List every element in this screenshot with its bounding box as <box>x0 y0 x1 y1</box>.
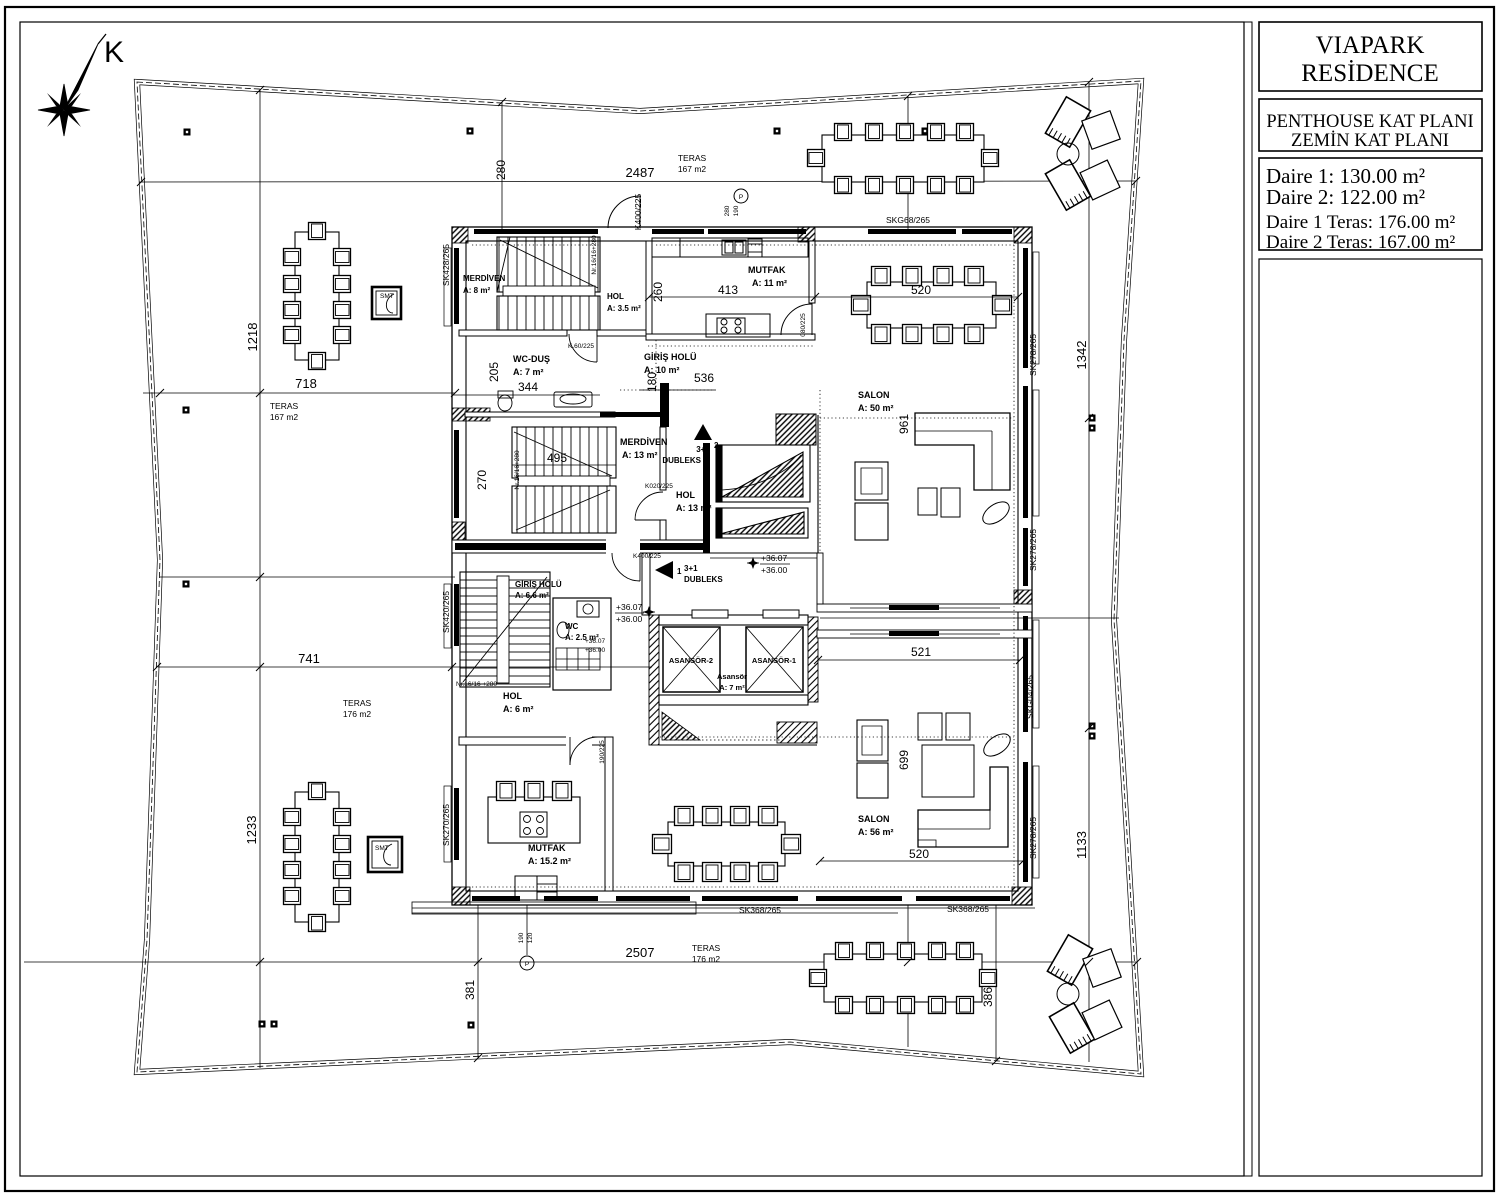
svg-text:Asansör: Asansör <box>717 672 747 681</box>
wc2 cabinet grid <box>556 648 600 670</box>
window sill lines below bottom wall <box>412 907 1035 909</box>
svg-text:SMT: SMT <box>375 845 389 852</box>
svg-text:K: K <box>104 36 124 69</box>
svg-text:Nr.16/16+280: Nr.16/16+280 <box>514 450 521 490</box>
svg-text:TERAS: TERAS <box>692 943 721 953</box>
svg-text:SMT: SMT <box>380 293 394 300</box>
apartment1 dining table <box>653 807 801 882</box>
svg-text:3+1: 3+1 <box>684 564 698 573</box>
svg-text:MUTFAK: MUTFAK <box>748 265 786 275</box>
interior dimension lines <box>452 297 1023 861</box>
svg-text:RESİDENCE: RESİDENCE <box>1301 60 1439 87</box>
upper salon L sofa <box>915 413 1010 490</box>
svg-text:176 m2: 176 m2 <box>692 954 721 964</box>
grid line vertical x908 <box>907 96 909 232</box>
WC1 toilet <box>498 391 513 411</box>
svg-text:1233: 1233 <box>244 816 259 845</box>
wall y540 black core <box>455 543 705 550</box>
svg-text:A: 6 m²: A: 6 m² <box>503 704 534 714</box>
svg-text:1: 1 <box>677 567 682 576</box>
svg-text:SK270/265: SK270/265 <box>441 804 451 846</box>
stairs top-left <box>497 237 600 330</box>
window sills outside left wall <box>444 248 451 862</box>
title block box areas <box>1259 158 1482 253</box>
wall x646 elevator approach <box>642 553 650 615</box>
svg-text:+36.07: +36.07 <box>585 638 605 645</box>
upper salon coffee tables <box>918 488 937 515</box>
svg-text:GİRİŞ HOLÜ: GİRİŞ HOLÜ <box>644 352 697 362</box>
duplex void room upper <box>716 445 810 502</box>
sliding door wall between salons <box>817 604 1032 638</box>
WC2 room walls <box>553 598 611 690</box>
svg-text:520: 520 <box>911 283 931 297</box>
svg-text:SK368/265: SK368/265 <box>739 905 781 915</box>
svg-text:ZEMİN KAT PLANI: ZEMİN KAT PLANI <box>1291 130 1449 151</box>
WC1 sink <box>554 392 592 407</box>
svg-text:SK278/265: SK278/265 <box>1028 817 1038 859</box>
svg-text:190: 190 <box>518 932 525 943</box>
bbq table bottom-left <box>368 837 402 872</box>
svg-text:A: 15.2 m²: A: 15.2 m² <box>528 856 571 866</box>
svg-text:SALON: SALON <box>858 814 890 824</box>
svg-text:DUBLEKS: DUBLEKS <box>662 456 701 465</box>
svg-text:413: 413 <box>718 283 738 297</box>
grid line horizontal y962 dim 2507 <box>24 961 1137 963</box>
P circle top <box>734 189 748 203</box>
lounge chairs top-right <box>1045 97 1120 210</box>
big hatched pier <box>776 414 816 445</box>
level marker near wc2 <box>643 606 655 618</box>
terrace dining table top-right <box>808 124 999 194</box>
svg-text:SKG68/265: SKG68/265 <box>886 215 930 225</box>
svg-text:K020/225: K020/225 <box>645 483 673 490</box>
outer wall window bars top <box>454 229 1028 901</box>
hol13 door arc <box>635 492 663 520</box>
svg-text:K400/225: K400/225 <box>633 194 643 231</box>
outer wall window bars bottom <box>472 896 520 901</box>
svg-text:P: P <box>739 194 743 201</box>
svg-text:080/225: 080/225 <box>800 313 807 337</box>
kitchen2 top wall <box>459 737 605 745</box>
dotted under kitchen1 <box>648 345 813 347</box>
giris holu right wall black <box>660 383 669 427</box>
north compass <box>38 34 124 136</box>
svg-text:A: 7 m²: A: 7 m² <box>513 367 544 377</box>
svg-text:718: 718 <box>295 376 317 391</box>
dimension tick marks <box>137 78 1141 1065</box>
dim line vertical x996 dim 386 <box>995 905 997 1061</box>
svg-text:1218: 1218 <box>245 323 260 352</box>
level marker mid <box>747 557 759 569</box>
lounge chairs bottom-right <box>1047 935 1122 1053</box>
svg-text:WC: WC <box>565 622 579 631</box>
stair room right wall <box>660 427 666 490</box>
elevator lobby below <box>777 722 817 743</box>
duplex arrow lower <box>655 561 673 579</box>
duplex arrow upper <box>694 424 712 440</box>
lower salon L sofa <box>918 767 1008 847</box>
wall y540 thick <box>452 540 708 553</box>
upper salon plant <box>979 497 1013 528</box>
svg-text:520: 520 <box>909 847 929 861</box>
HOL13 right wall <box>703 443 710 553</box>
kitchen1 left wall <box>646 241 652 340</box>
P circle bottom <box>520 956 534 970</box>
grid line vertical x502 <box>501 102 503 232</box>
svg-text:MUTFAK: MUTFAK <box>528 843 566 853</box>
svg-text:2: 2 <box>714 441 719 450</box>
dotted ceiling lines <box>472 245 1014 887</box>
svg-text:A: 13 m²: A: 13 m² <box>622 450 658 460</box>
svg-text:521: 521 <box>911 645 931 659</box>
grid line horizontal y181 <box>139 181 1136 182</box>
grid line vertical x260 <box>24 82 1137 1068</box>
sliding door panels <box>889 605 939 610</box>
svg-text:120: 120 <box>527 932 534 943</box>
svg-text:495: 495 <box>547 451 567 465</box>
interior walls <box>452 241 815 553</box>
svg-text:SK420/265: SK420/265 <box>441 591 451 633</box>
title block box VIAPARK RESIDENCE <box>1259 22 1482 91</box>
wall hatch blocks <box>452 227 1032 905</box>
wc1 door arc <box>569 334 597 362</box>
grid line horizontal y667 dim 741 <box>158 666 652 668</box>
upper salon dining table <box>852 267 1012 344</box>
giris holu door arc <box>612 553 640 581</box>
svg-text:TERAS: TERAS <box>678 153 707 163</box>
kitchen1 door arc <box>781 303 812 335</box>
title block box plan names <box>1259 99 1482 151</box>
svg-text:ASANSÖR-2: ASANSÖR-2 <box>669 656 713 665</box>
svg-text:176 m2: 176 m2 <box>343 709 372 719</box>
entry door top with arc <box>608 196 640 228</box>
terrace boundary polygon (double line with dashed middle) <box>137 81 1141 1074</box>
lower salon plant <box>980 729 1014 760</box>
grid line horizontal y393 dim 718 <box>143 392 455 394</box>
upper salon armchairs <box>855 462 888 540</box>
elevator shaft walls <box>649 615 659 745</box>
svg-text:WC-DUŞ: WC-DUŞ <box>513 354 550 364</box>
svg-text:344: 344 <box>518 380 538 394</box>
window sills outside right wall <box>1033 252 1039 878</box>
kitchen1 counter <box>652 238 808 257</box>
kitchen1 right wall <box>809 241 815 303</box>
lower salon armchair and ottoman <box>857 720 888 798</box>
svg-text:Daire 1 Teras: 176.00 m²: Daire 1 Teras: 176.00 m² <box>1266 212 1456 233</box>
svg-text:Nr.16/16 +280: Nr.16/16 +280 <box>456 681 497 688</box>
duplex void room lower <box>716 508 808 538</box>
toilet wc2 <box>557 622 569 638</box>
svg-text:961: 961 <box>897 414 911 434</box>
svg-text:+36.00: +36.00 <box>616 614 643 624</box>
kitchen2 door arc <box>570 737 598 765</box>
kitchen2 bottom counter <box>515 876 537 900</box>
svg-text:Daire 2: 122.00 m²: Daire 2: 122.00 m² <box>1266 185 1425 209</box>
svg-text:SK278/265: SK278/265 <box>1028 334 1038 376</box>
svg-text:381: 381 <box>463 980 477 1000</box>
svg-text:A: 56 m²: A: 56 m² <box>858 827 894 837</box>
svg-text:HOL: HOL <box>503 691 523 701</box>
grid line horizontal y618 right <box>820 617 1119 619</box>
svg-text:Daire 2 Teras: 167.00 m²: Daire 2 Teras: 167.00 m² <box>1266 232 1456 253</box>
svg-text:DUBLEKS: DUBLEKS <box>684 575 723 584</box>
svg-text:HOL: HOL <box>607 292 624 301</box>
svg-text:+36.00: +36.00 <box>761 565 788 575</box>
svg-text:VIAPARK: VIAPARK <box>1316 32 1425 59</box>
stairs middle <box>512 427 616 533</box>
building outer wall ring <box>452 227 1032 905</box>
svg-text:280: 280 <box>494 160 508 180</box>
lower salon tables <box>918 713 942 740</box>
svg-text:190: 190 <box>733 205 740 216</box>
elevator cab ASANSOR-2 <box>663 627 720 692</box>
kitchen2 right wall <box>605 737 613 891</box>
svg-text:SALON: SALON <box>858 390 890 400</box>
svg-text:536: 536 <box>694 371 714 385</box>
svg-text:167 m2: 167 m2 <box>678 164 707 174</box>
terrace dining table top-left <box>284 223 351 370</box>
wall under void rooms <box>650 552 817 554</box>
svg-text:190/225: 190/225 <box>599 740 606 764</box>
svg-text:A: 7 m²: A: 7 m² <box>719 683 745 692</box>
outer wall window bars right <box>1023 248 1028 368</box>
svg-text:1133: 1133 <box>1074 831 1089 859</box>
wall y412 band <box>465 412 615 417</box>
stairs lower-left <box>460 572 550 687</box>
svg-text:1342: 1342 <box>1074 341 1089 370</box>
survey markers <box>184 129 191 136</box>
wall WC-DUS top y330 <box>459 330 567 336</box>
washing machine <box>577 601 599 617</box>
terrace dining table bottom-left <box>284 783 351 932</box>
terrace dining table bottom <box>810 943 997 1014</box>
svg-text:K400/225: K400/225 <box>633 553 661 560</box>
svg-text:P: P <box>525 961 529 968</box>
grid line vertical x1089 <box>1088 82 1090 1062</box>
svg-text:HOL: HOL <box>676 490 696 500</box>
drawing area inner frame <box>20 22 1244 1176</box>
svg-text:+36.00: +36.00 <box>585 647 605 654</box>
svg-text:270: 270 <box>475 470 489 490</box>
svg-text:SKG04/265: SKG04/265 <box>1025 675 1035 719</box>
kitchen1 bottom wall <box>646 334 815 340</box>
svg-text:A: 50 m²: A: 50 m² <box>858 403 894 413</box>
wall y412 extension <box>600 412 660 417</box>
svg-text:PENTHOUSE KAT PLANI: PENTHOUSE KAT PLANI <box>1266 112 1473 132</box>
svg-text:699: 699 <box>897 750 911 770</box>
svg-text:A: 8 m²: A: 8 m² <box>463 286 490 295</box>
title block empty box <box>1259 259 1482 1176</box>
svg-text:A: 6.6 m²: A: 6.6 m² <box>515 591 549 600</box>
grid line horizontal y577 <box>160 576 455 578</box>
svg-text:2487: 2487 <box>626 165 655 180</box>
svg-text:MERDİVEN: MERDİVEN <box>620 437 668 447</box>
svg-text:A: 3.5 m²: A: 3.5 m² <box>607 304 641 313</box>
svg-text:167 m2: 167 m2 <box>270 412 299 422</box>
svg-text:205: 205 <box>487 362 501 382</box>
elevator cab ASANSOR-1 <box>746 627 803 692</box>
dim line vertical x478 dim 381 <box>477 905 479 1058</box>
svg-text:386: 386 <box>981 987 995 1007</box>
kitchen2 island <box>488 782 580 844</box>
dim line vertical x527 P <box>526 905 528 955</box>
svg-text:280: 280 <box>724 205 731 216</box>
svg-text:741: 741 <box>298 651 320 666</box>
svg-text:MERDİVEN: MERDİVEN <box>463 274 505 283</box>
svg-text:260: 260 <box>651 282 665 302</box>
svg-text:GİRİŞ HOLÜ: GİRİŞ HOLÜ <box>515 580 562 589</box>
svg-text:+36.07: +36.07 <box>616 602 643 612</box>
svg-text:A: 10 m²: A: 10 m² <box>644 365 680 375</box>
svg-text:SK368/265: SK368/265 <box>947 904 989 914</box>
svg-text:A: 11 m²: A: 11 m² <box>752 278 787 288</box>
bbq table top-left <box>372 287 401 319</box>
svg-text:K.60/225: K.60/225 <box>568 343 594 350</box>
svg-text:TERAS: TERAS <box>343 698 372 708</box>
svg-text:SK278/265: SK278/265 <box>1028 529 1038 571</box>
svg-text:2507: 2507 <box>626 945 655 960</box>
salon left boundary wall <box>817 415 819 604</box>
svg-text:TERAS: TERAS <box>270 401 299 411</box>
outer wall window bars left <box>454 248 459 324</box>
svg-text:SK428/265: SK428/265 <box>441 244 451 286</box>
svg-text:Nr.16/16+280: Nr.16/16+280 <box>591 235 598 275</box>
svg-text:ASANSÖR-1: ASANSÖR-1 <box>752 656 796 665</box>
kitchen1 island with stove <box>706 314 770 337</box>
